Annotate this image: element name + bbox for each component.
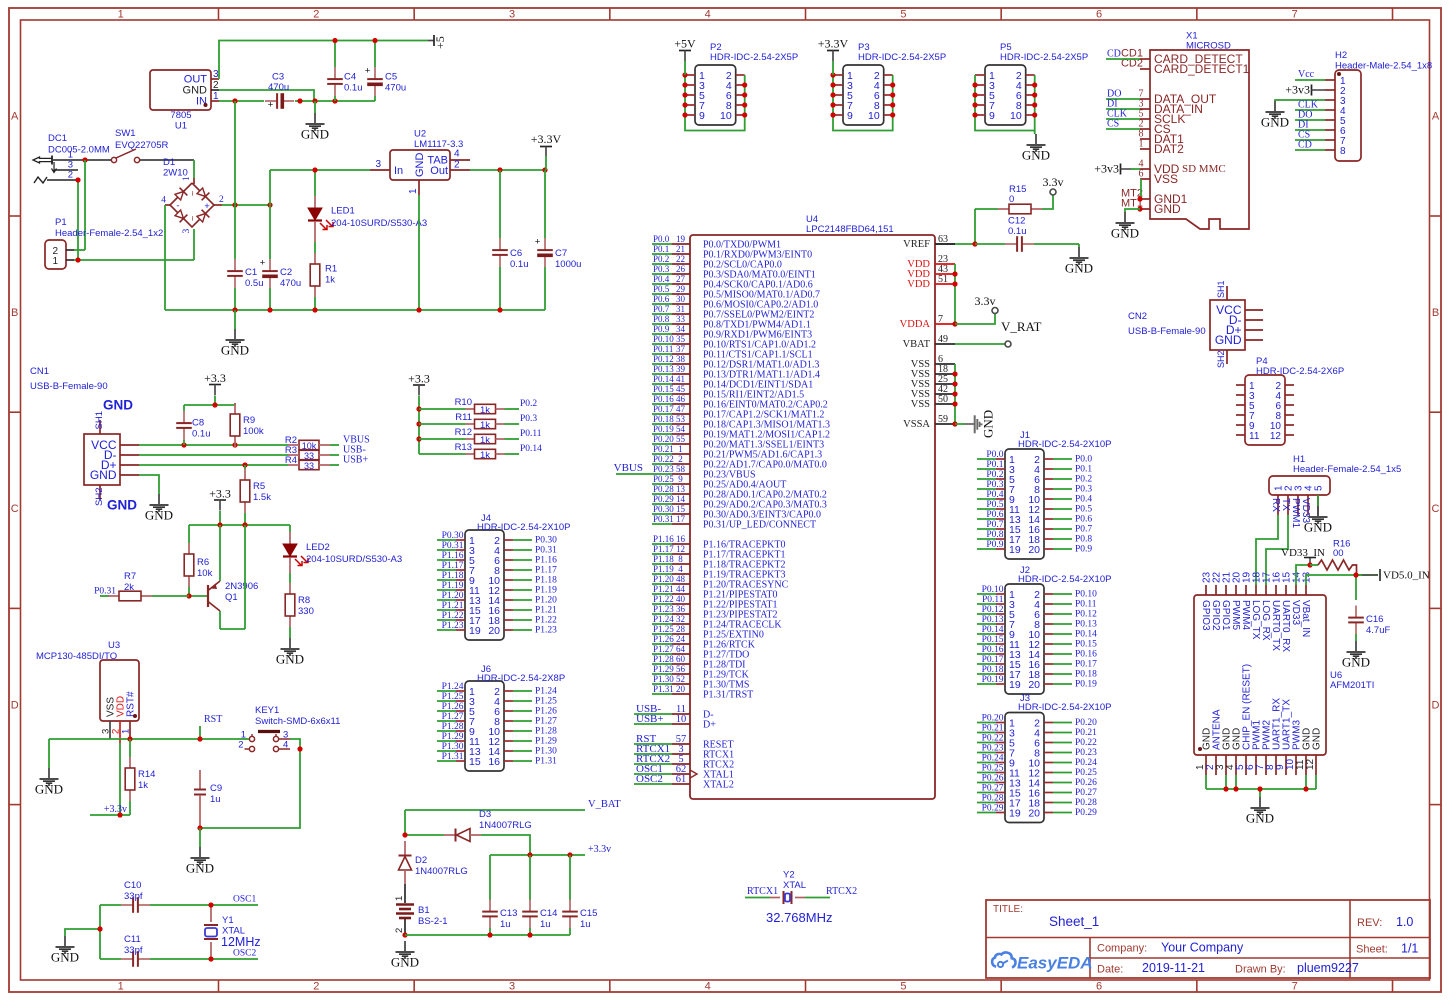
ground rail wire <box>165 309 545 311</box>
junction dots +3.3v rail <box>527 852 572 857</box>
junction dot OSC2 <box>208 956 213 961</box>
junction dots U2 out net <box>497 167 547 172</box>
svg-text:SH2: SH2 <box>1216 350 1226 368</box>
svg-text:+3.3: +3.3 <box>209 486 231 500</box>
svg-text:VD5.0_IN: VD5.0_IN <box>1383 570 1430 582</box>
svg-text:BS-2-1: BS-2-1 <box>418 916 448 927</box>
wire USB D- to R3 <box>139 454 288 456</box>
svg-text:41: 41 <box>676 374 685 384</box>
svg-text:UART0_RX: UART0_RX <box>1280 600 1291 652</box>
svg-text:P1.31: P1.31 <box>535 757 557 767</box>
wire battery ground rail <box>405 934 570 936</box>
svg-text:+: + <box>365 66 371 77</box>
svg-text:P0.17: P0.17 <box>653 404 674 414</box>
svg-text:33: 33 <box>676 314 686 324</box>
svg-text:1: 1 <box>182 176 192 181</box>
header J4 HDR-IDC-2.54-2X10P <box>456 513 570 640</box>
svg-text:C11: C11 <box>124 934 141 945</box>
junction dots ground rail <box>232 307 502 312</box>
svg-text:P0.30: P0.30 <box>535 536 557 546</box>
svg-text:C14: C14 <box>540 908 557 919</box>
svg-text:4: 4 <box>705 9 711 21</box>
svg-text:0.1u: 0.1u <box>510 259 529 270</box>
svg-text:P0.29: P0.29 <box>653 494 674 504</box>
svg-text:204-10SURD/S530-A3: 204-10SURD/S530-A3 <box>331 218 427 229</box>
svg-text:GPIO2: GPIO2 <box>1210 600 1221 631</box>
svg-text:KEY1: KEY1 <box>255 705 279 716</box>
svg-text:2019-11-21: 2019-11-21 <box>1142 961 1205 975</box>
svg-text:2: 2 <box>678 454 683 464</box>
svg-text:GND: GND <box>301 127 329 142</box>
svg-text:C10: C10 <box>124 880 141 891</box>
svg-text:63: 63 <box>938 234 948 245</box>
svg-text:9: 9 <box>699 110 705 122</box>
resistor R1 1k <box>310 253 337 310</box>
net label +3.3v at R14 <box>90 804 130 815</box>
svg-text:P1.20: P1.20 <box>442 591 464 601</box>
net labels right of J2 <box>1053 590 1097 690</box>
connector CN1 USB-B-Female-90 <box>30 366 139 506</box>
svg-text:D3: D3 <box>479 809 491 820</box>
junction dot VREF net <box>972 241 977 246</box>
net label +3.3v <box>588 844 611 855</box>
wire P1 pin1 to bridge <box>74 259 194 261</box>
battery B1 BS-2-1 <box>394 884 448 935</box>
svg-text:P0.25: P0.25 <box>1075 768 1097 778</box>
junction dot at +3.3 node <box>212 402 217 407</box>
svg-text:2: 2 <box>219 195 224 205</box>
svg-text:C1: C1 <box>245 267 257 278</box>
ground at C16 <box>1342 641 1370 670</box>
header P5 HDR-IDC-2.54-2X5P <box>975 42 1088 125</box>
svg-text:Out: Out <box>430 165 448 177</box>
svg-text:3: 3 <box>509 9 515 21</box>
svg-text:R11: R11 <box>455 412 472 423</box>
svg-text:P0.11: P0.11 <box>520 429 542 439</box>
svg-text:14: 14 <box>676 494 686 504</box>
svg-text:GND: GND <box>186 861 214 876</box>
svg-text:53: 53 <box>676 414 686 424</box>
svg-text:P0.31: P0.31 <box>535 546 557 556</box>
power flag +3v3 at H2 pin2 <box>1285 83 1325 97</box>
svg-text:P0.16: P0.16 <box>653 394 674 404</box>
svg-text:+3v3: +3v3 <box>1094 162 1119 176</box>
resistor R13 1k <box>419 442 519 461</box>
svg-text:VBUS: VBUS <box>614 462 643 474</box>
svg-text:2: 2 <box>313 9 319 21</box>
net label USB+ <box>330 455 368 466</box>
net label VBUS at U4 <box>614 462 652 474</box>
wire U4 VSS bus <box>954 364 956 424</box>
svg-text:+3v3: +3v3 <box>1285 83 1310 97</box>
svg-text:B: B <box>11 307 18 319</box>
svg-text:7: 7 <box>1292 981 1298 993</box>
net label GND at CN1 SH1 <box>103 398 133 413</box>
svg-text:Y1: Y1 <box>222 915 234 926</box>
net label RST <box>200 714 222 739</box>
svg-text:P1.31: P1.31 <box>653 684 674 694</box>
U4 right pins VREF/VDD/VSS <box>900 234 955 430</box>
wire R7 to base <box>152 595 189 597</box>
svg-text:52: 52 <box>676 674 685 684</box>
svg-text:P0.16: P0.16 <box>982 645 1004 655</box>
svg-text:P1.23: P1.23 <box>442 621 464 631</box>
junction dot RST stub <box>197 736 202 741</box>
svg-text:51: 51 <box>938 274 948 285</box>
svg-text:DC1: DC1 <box>48 133 67 144</box>
svg-text:P1.23: P1.23 <box>535 626 557 636</box>
svg-text:0.1u: 0.1u <box>1008 226 1027 237</box>
connector CN2 USB-B-Female-90 <box>1128 280 1263 368</box>
junction dot VD33_IN <box>1307 562 1312 567</box>
svg-text:P0.1: P0.1 <box>1075 465 1092 475</box>
svg-text:SH1: SH1 <box>1216 280 1226 298</box>
junction dot B1 bottom <box>402 932 407 937</box>
svg-text:PWM1: PWM1 <box>1290 498 1301 528</box>
wire bridge pin1 from switch <box>193 160 195 184</box>
svg-text:Q1: Q1 <box>225 592 238 603</box>
svg-text:1: 1 <box>1139 139 1144 150</box>
svg-text:13: 13 <box>676 484 686 494</box>
svg-text:RST#: RST# <box>126 691 137 717</box>
svg-text:P0.25: P0.25 <box>653 474 674 484</box>
wire X1 VSS to GND1 <box>1140 179 1142 199</box>
junction dots R10 bus <box>416 406 421 441</box>
svg-text:R12: R12 <box>455 427 472 438</box>
svg-text:9: 9 <box>989 110 995 122</box>
wire R6 to Q1 base <box>189 587 208 596</box>
svg-text:P0.23: P0.23 <box>653 464 674 474</box>
svg-text:P1.28: P1.28 <box>442 722 464 732</box>
ground at X1 <box>1111 212 1139 241</box>
net label RTCX1 at Y2 <box>745 886 778 898</box>
terminal 3.3v at R15 <box>1043 175 1064 195</box>
svg-text:V_BAT: V_BAT <box>588 799 621 810</box>
svg-text:P0.13: P0.13 <box>653 364 674 374</box>
svg-text:12: 12 <box>1270 431 1282 442</box>
svg-text:C8: C8 <box>192 418 204 429</box>
svg-text:HDR-IDC-2.54-2X10P: HDR-IDC-2.54-2X10P <box>1018 702 1111 713</box>
net label P0.14 <box>520 444 542 454</box>
svg-text:+: + <box>260 258 266 269</box>
svg-text:P0.29: P0.29 <box>982 804 1004 814</box>
svg-text:P0.28: P0.28 <box>653 484 674 494</box>
svg-text:VSS: VSS <box>911 399 930 410</box>
svg-text:RX: RX <box>1270 498 1281 512</box>
svg-text:P1.29: P1.29 <box>535 737 557 747</box>
svg-text:In: In <box>394 165 403 177</box>
wire D3 to +3.3v node <box>481 835 530 855</box>
svg-text:XTAL: XTAL <box>783 880 806 891</box>
wire Q1 collector loop <box>220 525 245 629</box>
wire C12 to ground <box>1078 244 1080 247</box>
svg-text:1: 1 <box>394 896 405 901</box>
wire bridge pin2 output <box>213 204 270 206</box>
header P4 HDR-IDC-2.54-2X6P <box>1236 356 1344 445</box>
svg-text:HDR-IDC-2.54-2X5P: HDR-IDC-2.54-2X5P <box>1000 52 1088 63</box>
svg-text:Your Company: Your Company <box>1161 941 1244 955</box>
svg-text:33: 33 <box>304 451 314 461</box>
resistor R4 33 <box>285 455 330 471</box>
LED2 204-10SURD/S530-A3 <box>283 525 402 573</box>
svg-text:P0.26: P0.26 <box>1075 778 1097 788</box>
net labels right of J1 <box>1053 455 1092 555</box>
capacitor C14 1u <box>522 855 557 935</box>
ground at H1 <box>1304 506 1332 535</box>
net labels right of J6 <box>513 687 557 767</box>
svg-text:P0.28: P0.28 <box>1075 798 1097 808</box>
module U6 AFM201TI <box>1194 571 1374 775</box>
svg-text:P1.23: P1.23 <box>653 604 674 614</box>
svg-text:Company:: Company: <box>1097 943 1147 955</box>
svg-text:P1.30: P1.30 <box>653 674 674 684</box>
capacitor C8 0.1u <box>176 405 210 445</box>
svg-text:1k: 1k <box>480 405 490 416</box>
svg-text:HDR-IDC-2.54-2X8P: HDR-IDC-2.54-2X8P <box>477 673 565 684</box>
card socket X1 MICROSD <box>1121 31 1250 230</box>
svg-text:0.1u: 0.1u <box>344 83 363 94</box>
svg-text:00: 00 <box>1333 548 1344 559</box>
svg-text:+3.3: +3.3 <box>204 371 226 385</box>
svg-text:0.5u: 0.5u <box>245 278 264 289</box>
svg-text:DAT2: DAT2 <box>1154 142 1184 156</box>
svg-text:P0.26: P0.26 <box>982 774 1004 784</box>
svg-text:OSC2: OSC2 <box>636 773 663 785</box>
svg-text:LED1: LED1 <box>331 206 355 217</box>
svg-text:U3: U3 <box>108 640 120 651</box>
svg-text:3.3v: 3.3v <box>1043 175 1064 189</box>
wire X1 GND pins to ground <box>1125 209 1140 212</box>
svg-text:1k: 1k <box>480 420 490 431</box>
svg-text:1N4007RLG: 1N4007RLG <box>479 820 532 831</box>
header J6 HDR-IDC-2.54-2X8P <box>456 664 565 771</box>
capacitor C12 0.1u <box>975 216 1079 252</box>
svg-text:19: 19 <box>676 234 686 244</box>
capacitor C15 1u <box>562 855 597 935</box>
wire P1 pin2 to DC1 <box>74 249 85 251</box>
svg-text:44: 44 <box>676 584 686 594</box>
wire +3.3v rail at C13-C15 <box>490 854 585 856</box>
svg-text:+: + <box>535 237 541 248</box>
svg-text:2: 2 <box>313 981 319 993</box>
junction dots on IN/GND net <box>232 98 337 103</box>
svg-text:USB+: USB+ <box>636 713 664 725</box>
svg-text:33pf: 33pf <box>124 945 143 956</box>
capacitor C10 33pf <box>100 880 211 913</box>
svg-text:19: 19 <box>1009 807 1021 819</box>
wire U6 ground bus <box>1206 775 1316 797</box>
ground symbol main rail <box>221 310 249 358</box>
junction dots on +5 rail <box>332 38 377 43</box>
ground at R8 <box>276 638 304 667</box>
svg-text:15: 15 <box>469 756 481 768</box>
svg-text:D+: D+ <box>703 720 716 731</box>
svg-text:12MHz: 12MHz <box>221 935 261 949</box>
svg-text:P0.9: P0.9 <box>986 540 1003 550</box>
svg-text:CD: CD <box>1107 49 1121 60</box>
junction dots X1 MT pins <box>1137 196 1142 211</box>
svg-text:1: 1 <box>678 444 683 454</box>
svg-text:1u: 1u <box>540 919 551 930</box>
svg-text:C16: C16 <box>1366 614 1383 625</box>
wire U4 VDD bus <box>954 264 956 324</box>
net labels right of J3 <box>1053 718 1097 818</box>
svg-text:Sheet_1: Sheet_1 <box>1049 914 1099 929</box>
net labels DO DI CLK CS at X1 <box>1106 89 1140 130</box>
svg-text:TITLE:: TITLE: <box>993 904 1023 915</box>
svg-text:SD MMC: SD MMC <box>1182 163 1226 175</box>
svg-text:P1.25: P1.25 <box>653 624 674 634</box>
net label GND at CN1 SH2 <box>107 498 137 513</box>
svg-text:19: 19 <box>1009 679 1021 691</box>
svg-text:D: D <box>1432 699 1440 711</box>
svg-text:GND: GND <box>1342 655 1370 670</box>
svg-text:C3: C3 <box>272 72 284 83</box>
svg-text:P0.8: P0.8 <box>1075 535 1092 545</box>
LED1 204-10SURD/S530-A3 <box>308 170 427 253</box>
svg-text:R6: R6 <box>197 557 209 568</box>
power flag +3.3V at P3 <box>818 37 849 76</box>
wire V_BAT to D2/D3 node <box>405 810 444 835</box>
bus wires P2 <box>685 75 745 131</box>
svg-text:11: 11 <box>1249 431 1260 442</box>
svg-text:B: B <box>1432 307 1439 319</box>
svg-text:P1.21: P1.21 <box>442 601 464 611</box>
svg-text:Header-Female-2.54_1x2: Header-Female-2.54_1x2 <box>55 228 163 239</box>
wire H1 TX to U6 LOG_RX <box>1266 515 1288 585</box>
svg-text:VDD: VDD <box>907 279 930 290</box>
net labels left of J3 <box>977 714 1004 814</box>
svg-text:SW1: SW1 <box>115 128 136 139</box>
svg-text:EVQ22705R: EVQ22705R <box>115 140 168 151</box>
svg-text:P1.16: P1.16 <box>535 556 557 566</box>
wire U3 VDD down <box>119 743 121 815</box>
capacitor C6 0.1u <box>492 170 528 310</box>
svg-text:P0.10: P0.10 <box>1075 590 1097 600</box>
svg-text:CARD_DETECT1: CARD_DETECT1 <box>1154 62 1250 76</box>
svg-text:R14: R14 <box>138 769 155 780</box>
net labels left of J1 <box>977 450 1004 550</box>
svg-text:D: D <box>11 699 19 711</box>
junction dots bridge output <box>232 202 272 207</box>
power flag +3.3 at Q1 <box>209 486 231 525</box>
title block <box>986 900 1430 978</box>
svg-text:7: 7 <box>938 314 943 325</box>
svg-text:A: A <box>11 111 19 123</box>
svg-text:P0.13: P0.13 <box>982 615 1004 625</box>
svg-text:22: 22 <box>676 254 685 264</box>
svg-text:12: 12 <box>1305 758 1316 770</box>
wire U2 GND pin to rail <box>418 195 420 310</box>
regulator U2 LM1117-3.3 <box>370 129 470 196</box>
ground at B1 <box>391 941 419 970</box>
wire R8 to ground <box>289 627 291 638</box>
svg-text:35: 35 <box>676 334 686 344</box>
svg-text:VSS: VSS <box>1154 172 1178 186</box>
svg-text:20: 20 <box>676 684 686 694</box>
svg-text:UART0_TX: UART0_TX <box>1270 600 1281 651</box>
svg-text:GND: GND <box>414 153 426 178</box>
resistor R10 1k <box>419 397 519 416</box>
wire DC1 to P1 vertical buses <box>78 160 85 260</box>
capacitor C9 1u <box>194 770 222 828</box>
svg-text:2: 2 <box>394 928 405 933</box>
svg-text:P0.25: P0.25 <box>982 764 1004 774</box>
svg-text:GPIO3: GPIO3 <box>1200 600 1211 631</box>
supervisor U3 MCP130-485DI/TO <box>36 640 139 743</box>
svg-text:P0.4: P0.4 <box>986 490 1003 500</box>
svg-text:LED2: LED2 <box>306 542 330 553</box>
svg-text:2k: 2k <box>124 582 134 593</box>
svg-text:P0.18: P0.18 <box>1075 670 1097 680</box>
svg-text:P1.17: P1.17 <box>442 561 464 571</box>
svg-text:P0.21: P0.21 <box>982 724 1004 734</box>
svg-text:VDDA: VDDA <box>900 319 931 330</box>
resistor R7 2k <box>108 571 152 601</box>
svg-text:19: 19 <box>469 625 481 637</box>
connector P1 Header-Female-2.54_1x2 <box>45 217 163 269</box>
svg-text:VREF: VREF <box>903 239 930 250</box>
svg-text:P1.24: P1.24 <box>442 682 464 692</box>
svg-text:1000u: 1000u <box>555 259 581 270</box>
svg-text:C2: C2 <box>280 267 292 278</box>
wire U1 OUT to +5 rail <box>219 41 428 80</box>
resistor R15 0 <box>998 184 1042 214</box>
ground at VSSA sideways <box>955 410 996 438</box>
svg-text:46: 46 <box>676 394 686 404</box>
bus wires P5 <box>975 75 1035 131</box>
svg-text:10: 10 <box>720 110 732 122</box>
svg-text:55: 55 <box>676 434 686 444</box>
switch SW1 EVQ22705R <box>85 128 194 163</box>
svg-text:P1.27: P1.27 <box>442 712 464 722</box>
svg-text:P1.21: P1.21 <box>653 584 674 594</box>
ground at C9 <box>186 847 214 876</box>
svg-text:P0.21: P0.21 <box>653 444 674 454</box>
svg-text:20: 20 <box>488 625 500 637</box>
svg-text:P0.10: P0.10 <box>982 585 1004 595</box>
svg-text:60: 60 <box>676 654 686 664</box>
svg-text:P1.30: P1.30 <box>535 747 557 757</box>
svg-text:1.5k: 1.5k <box>253 492 271 503</box>
junction dot DC1 pin1 <box>82 157 87 162</box>
svg-text:P0.27: P0.27 <box>1075 788 1097 798</box>
svg-text:39: 39 <box>676 364 686 374</box>
svg-text:33: 33 <box>304 461 314 471</box>
svg-text:10: 10 <box>1010 110 1022 122</box>
U4 lower left pins USB/RST/OSC <box>634 703 734 791</box>
junction dot C9 bottom <box>197 825 202 830</box>
svg-text:P1.21: P1.21 <box>535 606 557 616</box>
svg-text:GND: GND <box>1246 811 1274 826</box>
svg-text:AFM201TI: AFM201TI <box>1330 680 1374 691</box>
svg-text:1: 1 <box>213 91 219 102</box>
svg-text:C: C <box>1432 503 1440 515</box>
svg-text:4.7uF: 4.7uF <box>1366 625 1390 636</box>
wire U3 VSS to ground <box>49 739 110 768</box>
diode D3 1N4007RLG <box>444 809 532 842</box>
svg-text:P0.11: P0.11 <box>653 344 673 354</box>
svg-text:GND: GND <box>35 782 63 797</box>
svg-text:3.3v: 3.3v <box>975 294 996 308</box>
svg-text:U1: U1 <box>175 121 187 132</box>
svg-text:+3.3v: +3.3v <box>588 844 611 855</box>
wire VD33_IN to U6 VD33 <box>1296 565 1310 585</box>
svg-text:P0.20: P0.20 <box>1075 718 1097 728</box>
junction dots Q1 rail <box>217 522 247 527</box>
svg-text:P1.20: P1.20 <box>535 596 557 606</box>
svg-text:P1.22: P1.22 <box>535 616 557 626</box>
